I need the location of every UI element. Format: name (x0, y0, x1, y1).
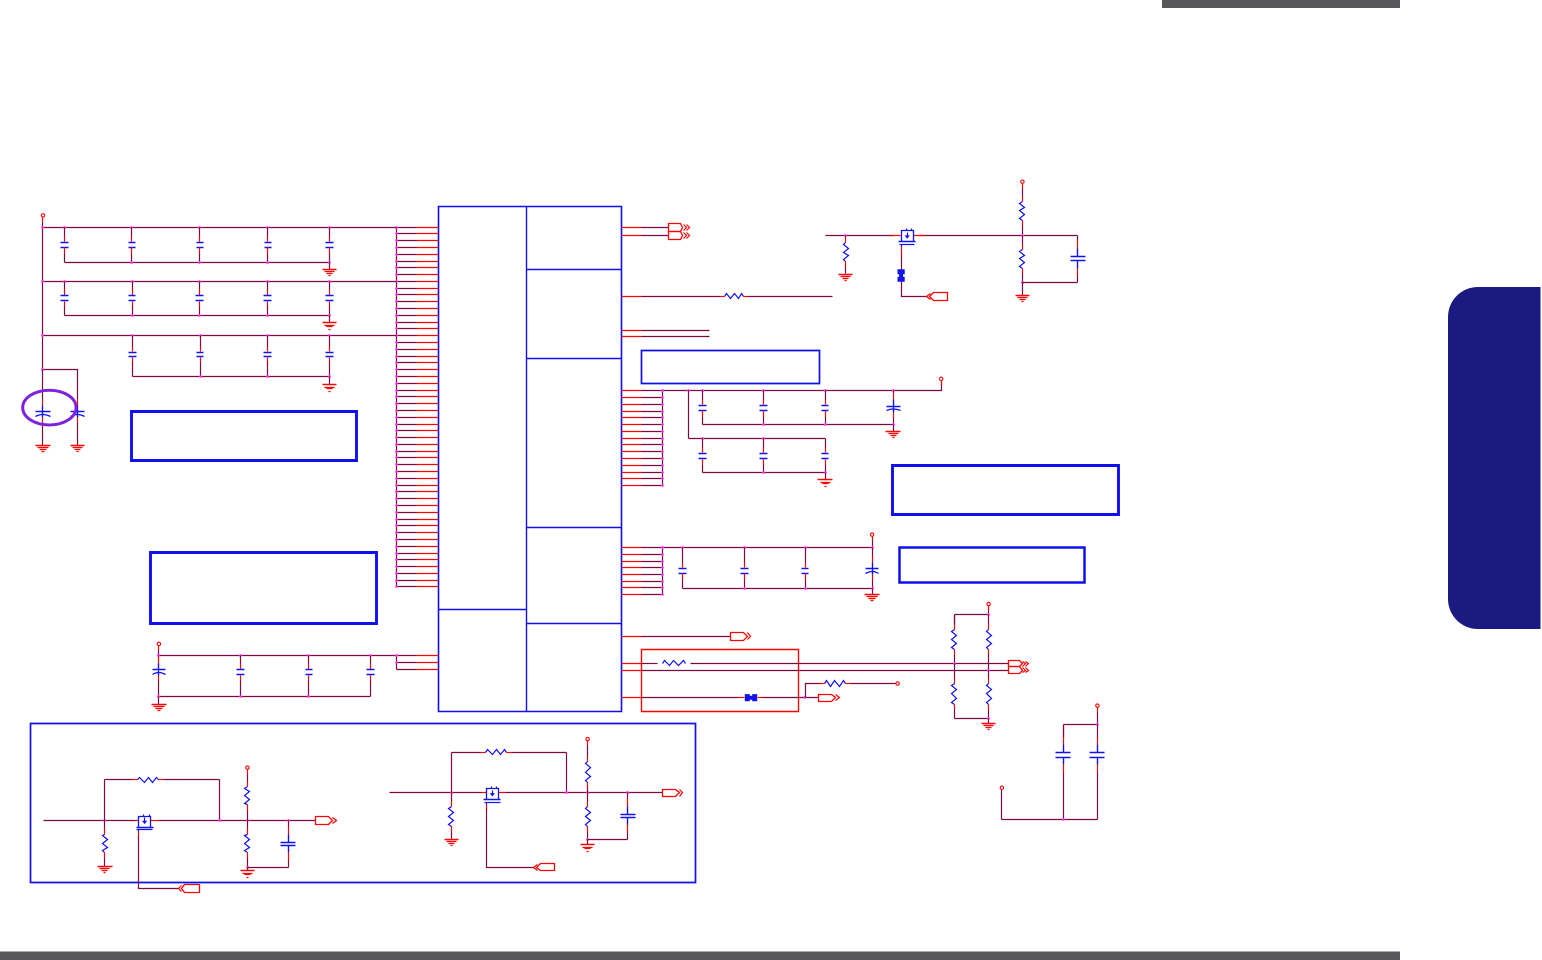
resistor R15 (820, 681, 896, 687)
ferrite bead FB2 (745, 694, 757, 701)
cell1 output wire (159, 820, 316, 822)
resistor R24 (449, 793, 454, 835)
IC U1 right column divider 3 (527, 527, 622, 529)
bank4 bottom rail junctions (157, 695, 310, 698)
capacitor C34 (326, 336, 334, 377)
divider bottom wire (955, 718, 989, 720)
IC U1 right column divider 2 (527, 358, 622, 360)
cell2 input wire (390, 792, 482, 794)
capacitor C9 (1056, 725, 1071, 820)
ground R13 (1016, 296, 1030, 302)
IC U1 lower-left pin stubs (397, 656, 439, 670)
rail B bottom wire (703, 472, 826, 474)
junction rail TR at R11 (844, 234, 847, 237)
wire3 bead left stub (739, 697, 745, 699)
ground rail B (818, 480, 833, 487)
resistor R25 (452, 750, 567, 755)
port P5 (179, 885, 200, 893)
resistor R16 (952, 615, 957, 663)
capacitor C10 (1090, 725, 1105, 820)
capacitor C63 (822, 391, 829, 425)
ground bank4 (152, 705, 167, 711)
Q1 gate wire to bead (901, 255, 903, 270)
row2 rail junctions (41, 280, 331, 283)
rail A ground stem (893, 425, 895, 432)
resistor R19 (987, 671, 992, 719)
capacitor C83 (802, 548, 809, 589)
ground CX2 (71, 446, 85, 452)
rail C ground stem (872, 589, 874, 595)
capacitor C11 (61, 228, 69, 263)
rail A bottom junctions (762, 423, 895, 426)
cell2 wire junctions (565, 791, 629, 794)
resistor R13 (1020, 236, 1025, 283)
port P7 (534, 864, 555, 871)
transistor Q1 source/drain stubs (891, 235, 925, 237)
cell2 input junction (450, 791, 453, 794)
cell2 output wire (506, 792, 663, 794)
series resistor R10 (642, 294, 833, 299)
row3 bottom rail (133, 376, 330, 378)
rail C bottom junctions (743, 587, 874, 590)
ground row1 (323, 270, 337, 276)
row2 bottom rail junctions (131, 314, 331, 317)
rail C bottom wire (683, 588, 873, 590)
bank4 power rail (159, 655, 397, 657)
lower-left pin bus wire (396, 656, 398, 670)
IC stub wire B (642, 336, 710, 338)
ground rail C (865, 595, 880, 601)
R20 ground stem (104, 861, 106, 867)
capacitor C33 (264, 336, 272, 377)
rail B ground stem (825, 473, 827, 480)
bottom footer bar (0, 952, 1400, 960)
capacitor C44 (367, 656, 375, 697)
capacitor C42 (237, 656, 245, 697)
power pin VCC8 (246, 766, 249, 775)
Q2 gate wire (138, 832, 140, 839)
right pin bus S4 junctions (661, 546, 664, 596)
capacitor C22 (129, 282, 136, 316)
rail A junctions (661, 389, 895, 392)
wire1 pin (622, 663, 642, 665)
capacitor C12 (621, 793, 636, 840)
R11 ground stem (845, 269, 847, 274)
row1 power rail (43, 227, 397, 229)
row2 bottom rail (65, 315, 330, 317)
bus port BP2 (1009, 661, 1029, 674)
rail B junctions (701, 437, 765, 440)
ground R24 (445, 840, 459, 846)
capacitor C23 (196, 282, 204, 316)
riser to R15 (806, 684, 820, 698)
power pin VCC3 (1021, 180, 1024, 189)
row1 rail junctions (41, 226, 331, 229)
label box 3 (642, 351, 820, 384)
port P6 (316, 817, 337, 825)
row1 bottom rail junctions (130, 261, 331, 264)
IC U1 right pin stubs S3 (622, 391, 663, 486)
top header bar (1162, 0, 1400, 8)
row3 bottom rail junctions (199, 375, 331, 378)
junction R16 wire1 (953, 662, 956, 665)
IC U1 left column divider (439, 609, 527, 611)
power pin VCC6 (987, 602, 990, 610)
junction R23 bottom (246, 866, 249, 869)
row1 ground stem (329, 263, 331, 270)
rail A wire (663, 381, 942, 391)
lower-left pin bus junctions (395, 654, 398, 664)
cap pair bottom wire (1002, 790, 1098, 820)
IC stub pin B (622, 336, 642, 338)
junction R27 bottom (586, 838, 589, 841)
ground R20 (98, 867, 113, 873)
capacitor C15 (326, 228, 334, 263)
rail B wire (689, 438, 826, 440)
cell1 input junction (103, 819, 106, 822)
power pin VCC5 (870, 533, 873, 541)
wire2 pin (622, 670, 642, 672)
rail C junctions (661, 546, 874, 549)
bead to port wire (902, 282, 927, 297)
IC U1 body (439, 207, 622, 712)
port wire pin (622, 636, 642, 638)
port P3 (731, 633, 751, 641)
junction R18 wire2 (987, 669, 990, 672)
port wire (642, 636, 731, 638)
wire2 to port (642, 670, 1009, 672)
ground rail A (886, 432, 901, 438)
capacitor C41 polarized (153, 656, 166, 697)
ferrite bead FB1 (898, 269, 905, 281)
capacitor C11 (281, 821, 296, 868)
capacitor C13 (197, 228, 204, 263)
cell2 feedback riser left (451, 753, 453, 793)
power pin VCC2 (157, 642, 160, 650)
ground CX1 (36, 446, 51, 452)
bank4 feed stem (158, 651, 160, 656)
wire3 to bead (642, 697, 739, 699)
cap pair feed (1064, 713, 1098, 738)
ground R23 (241, 871, 255, 878)
IC U1 right column divider 1 (527, 269, 622, 271)
bead right stub (758, 697, 763, 699)
transistor Q1 (899, 229, 916, 248)
junction divider top (987, 613, 990, 616)
capacitor C24 (264, 282, 272, 316)
power pin VCC1 (41, 214, 44, 223)
divider top wire (955, 611, 989, 625)
row1 bottom rail (65, 262, 330, 264)
label box 1 (132, 412, 357, 461)
capacitor C84 polarized (866, 548, 879, 589)
capacitor C62 (760, 391, 768, 425)
wire IC pin to R10 (622, 296, 642, 298)
bus port BP1 (669, 224, 690, 240)
port P2 (927, 293, 948, 301)
power pin VCC4 (940, 377, 943, 384)
Q3 gate wire down (487, 809, 534, 868)
ground divider (982, 724, 996, 730)
capacitor C72 (760, 439, 768, 473)
port P8 (663, 790, 683, 797)
IC pins to bus port BP1 (622, 228, 669, 236)
row2 power rail (43, 281, 397, 283)
ground row2 (323, 323, 337, 330)
IC U1 left pin stubs (397, 228, 439, 587)
capacitor C12 (129, 228, 136, 263)
junction cap pair bottom (1062, 818, 1065, 821)
navy side tab (1448, 287, 1541, 629)
rail A bottom wire (703, 424, 894, 426)
capacitor C71 (699, 439, 707, 473)
resistor R17 (952, 664, 957, 719)
IC U1 right pin stubs S4 (622, 548, 663, 595)
capacitor C81 (679, 548, 687, 589)
pin circle bottom-right (1000, 786, 1003, 789)
net rail TR (826, 235, 894, 237)
cell1 feedback riser right (219, 780, 221, 821)
C5 bottom wire (1023, 282, 1078, 284)
label box 4 (893, 466, 1119, 515)
right pin bus S4 (662, 548, 664, 595)
bank4 bottom rail (159, 696, 371, 698)
vertical feed wire from VCC1 (42, 223, 44, 370)
resistor R26 (586, 746, 591, 793)
right pin bus S3 (662, 391, 664, 486)
capacitor C21 (61, 282, 69, 316)
cell1 feedback riser left (104, 780, 106, 821)
capacitor C61 (699, 391, 707, 425)
resistor R20 (103, 821, 108, 861)
ground R27 (581, 845, 595, 852)
rail B bottom junctions (762, 471, 827, 474)
capacitor C73 (822, 439, 829, 473)
cell2 mosfet stubs (482, 792, 506, 794)
capacitor C31 (129, 336, 137, 377)
R23 ground stem (247, 868, 249, 871)
rail C wire (663, 541, 873, 548)
IC stub wire A (642, 330, 710, 332)
IC stub pin A (622, 330, 642, 332)
resistor R27 (586, 793, 591, 840)
net rail TR segment 2 (920, 235, 1078, 237)
highlight ellipse (23, 390, 76, 425)
right pin bus S3 junctions (661, 389, 664, 487)
capacitor C14 (265, 228, 272, 263)
junction divider bottom (987, 717, 990, 720)
transistor Q3 (484, 787, 501, 805)
row3 rail junctions (41, 334, 331, 337)
capacitor C5 (1071, 236, 1086, 283)
wire1 left (642, 663, 658, 665)
C12 bottom wire (588, 839, 628, 841)
wire1 to port (691, 663, 1009, 665)
resistor R18 (987, 615, 992, 671)
row3 power rail (43, 335, 397, 337)
transistor Q2 (137, 815, 154, 833)
Q2 gate wire down (139, 837, 179, 889)
capacitor C64 polarized (887, 391, 901, 425)
wire3 to junction (763, 697, 819, 699)
group box bottom-left (31, 724, 696, 883)
bank4 rail junctions (157, 654, 398, 657)
left pin bus wire (396, 228, 398, 587)
junction wire3 (803, 696, 806, 699)
capacitor C25 (326, 282, 334, 316)
port P4 (819, 695, 840, 702)
capacitor C43 (306, 656, 313, 697)
cell1 input wire (44, 820, 135, 822)
node crystal branch (41, 368, 44, 371)
power pin VCC9 (586, 737, 589, 745)
left pin bus junctions (395, 226, 398, 588)
Q3 gate wire (486, 805, 488, 811)
junction R12 rail (1021, 234, 1024, 237)
resistor R11 (844, 236, 849, 269)
ground row3 (323, 385, 337, 392)
wire3 pin (622, 697, 642, 699)
resistor R22 (245, 775, 250, 821)
capacitor C82 (741, 548, 749, 589)
Q1 gate wire down (901, 247, 903, 255)
R24 ground stem (451, 835, 453, 840)
cell1 wire junctions (218, 819, 290, 822)
row2 ground stem (329, 316, 331, 323)
label box 5 (900, 548, 1085, 583)
resistor R23 (245, 821, 250, 868)
resistor R21 (105, 778, 220, 783)
IC U1 right column divider 4 (527, 623, 622, 625)
R27 ground stem (587, 840, 589, 845)
C11 bottom wire (248, 867, 289, 869)
cell2 feedback riser right (566, 753, 568, 793)
branch wire to crystal caps (43, 370, 78, 399)
resistor R12 (1020, 189, 1025, 236)
ground R11 (839, 275, 853, 281)
capacitor CX2 (71, 399, 85, 446)
row3 ground stem (329, 377, 331, 385)
cell1 mosfet stubs (135, 820, 159, 822)
riser rail A to rail B (688, 391, 690, 439)
bank4 ground stem (158, 697, 160, 705)
junction cap pair feed (1096, 723, 1099, 726)
power pin VCC7 (1096, 704, 1099, 713)
capacitor CX1 (36, 370, 51, 446)
divider ground stem (988, 719, 990, 724)
label box 2 (151, 553, 377, 624)
R13 ground stem (1022, 283, 1024, 296)
capacitor C32 (197, 336, 204, 377)
red group box (642, 650, 799, 712)
resistor R14 (663, 661, 686, 666)
IC U1 internal vertical divider (526, 207, 528, 712)
pin circle R15 (896, 682, 899, 685)
junction R13 bottom (1021, 281, 1024, 284)
